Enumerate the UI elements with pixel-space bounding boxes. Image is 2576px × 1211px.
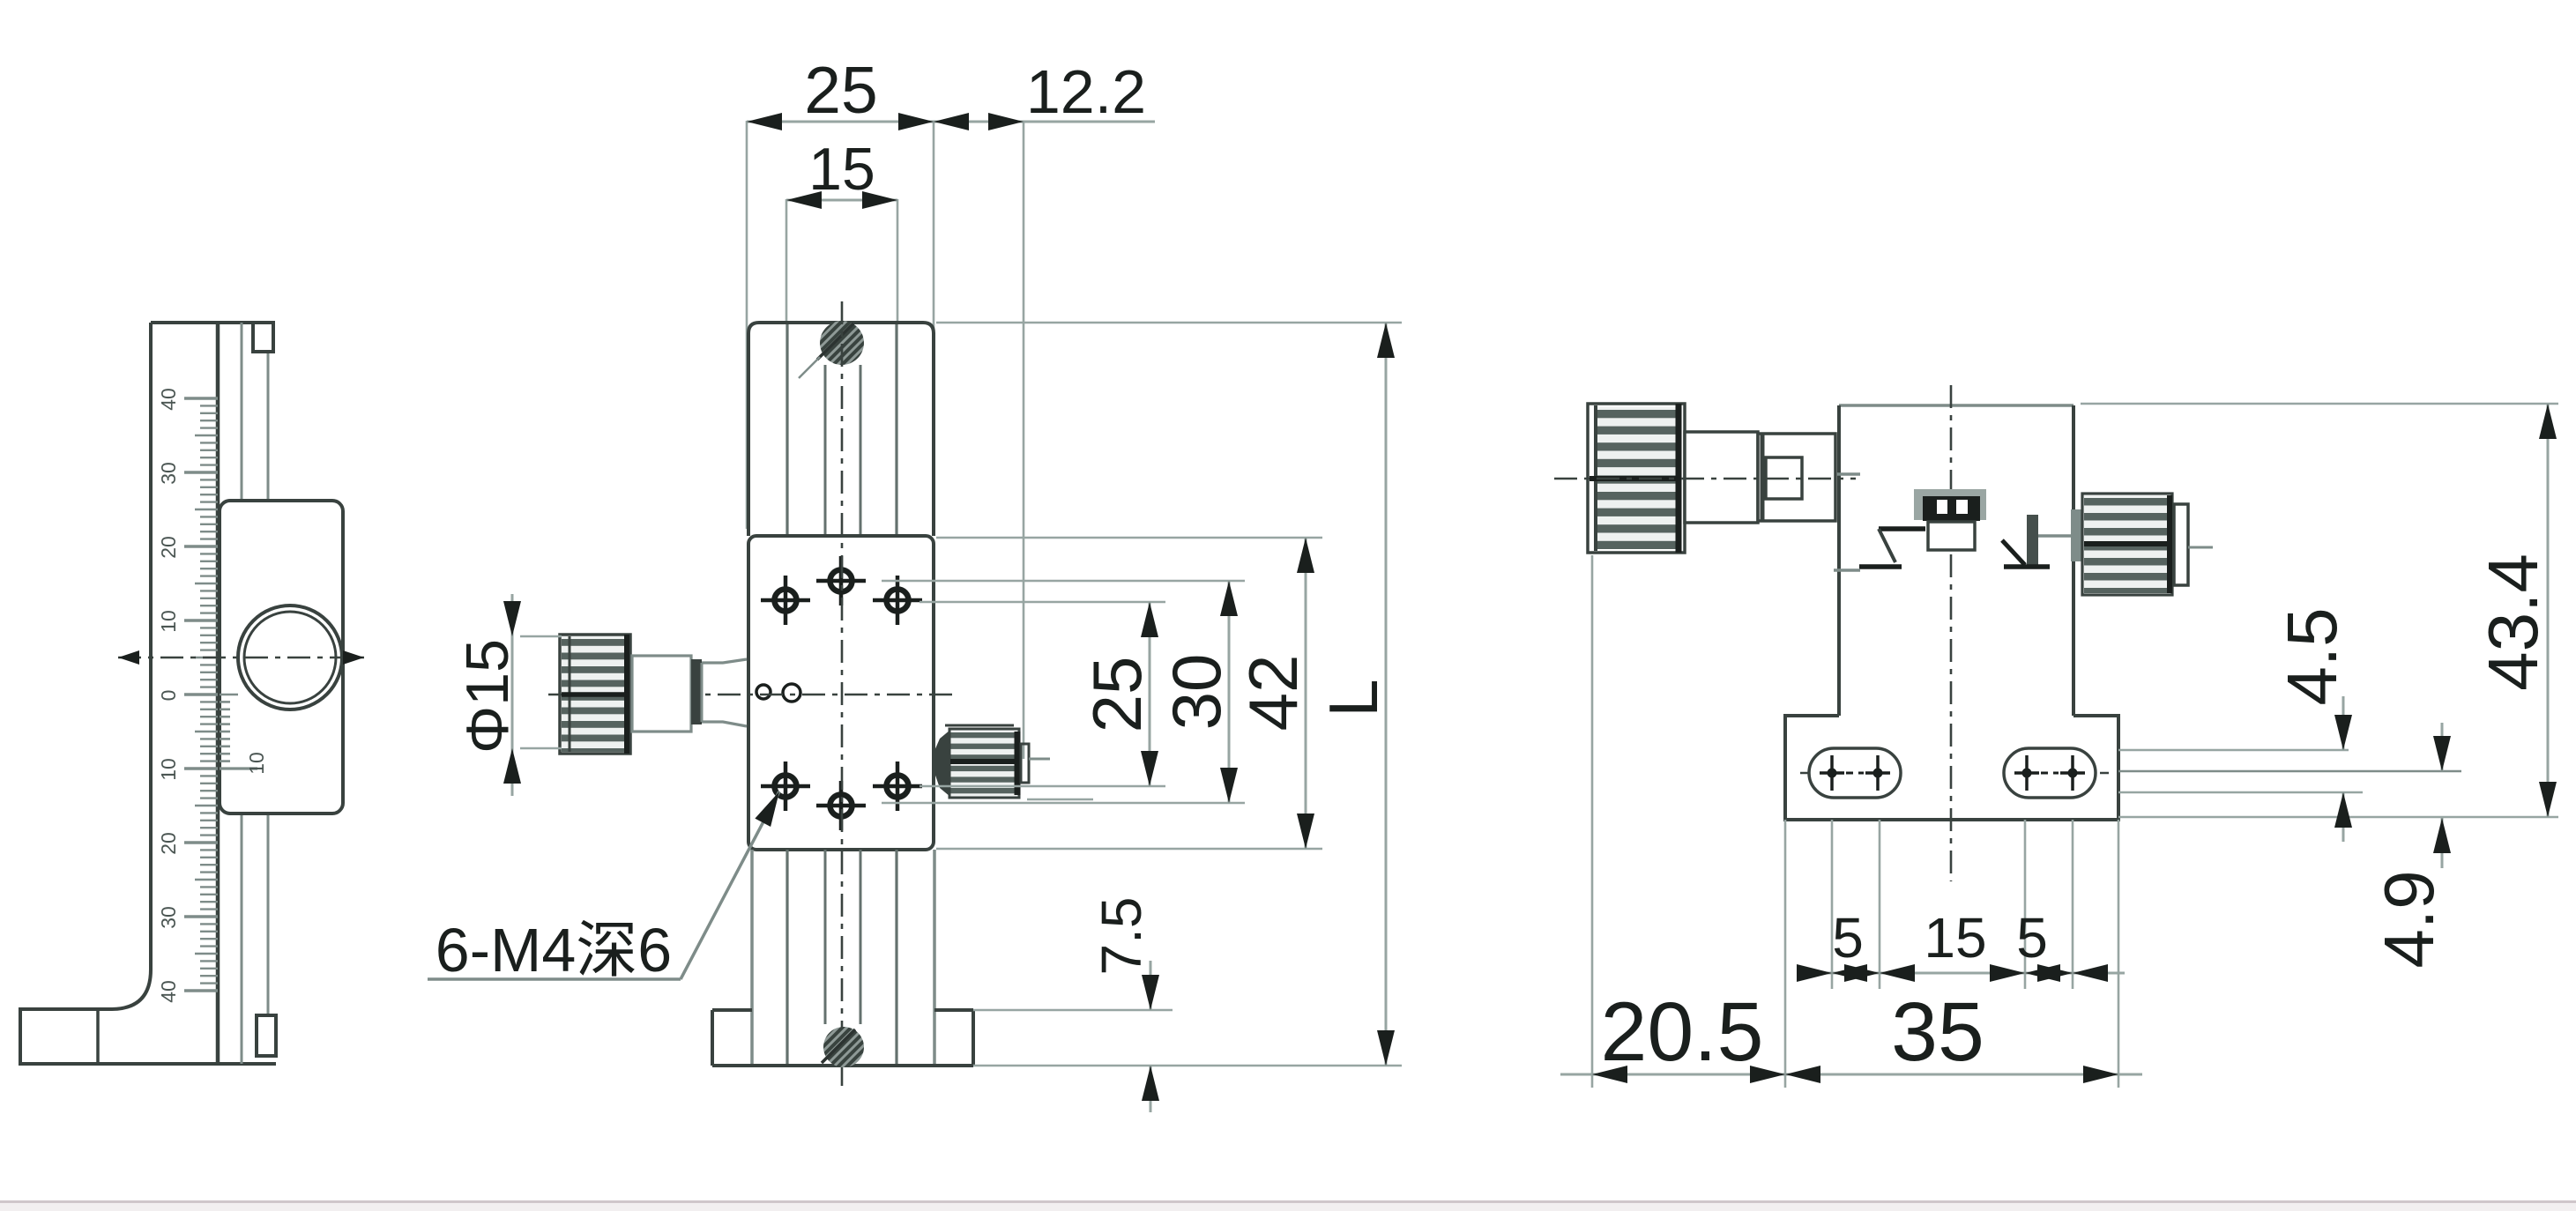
- spindle contact circles: [756, 685, 771, 699]
- left view scale ticks and numbers: [157, 388, 268, 1003]
- svg-text:6-M4深6: 6-M4深6: [436, 916, 672, 984]
- 6x M4 holes: [761, 576, 810, 625]
- svg-text:25: 25: [804, 53, 877, 127]
- left view centerline: [118, 657, 364, 659]
- svg-text:4.9: 4.9: [2370, 870, 2448, 968]
- bottom page rule: [0, 1200, 2576, 1203]
- svg-text:30: 30: [1158, 654, 1235, 731]
- middle view rail top section: [787, 323, 897, 536]
- svg-text:42: 42: [1234, 655, 1312, 732]
- svg-text:30: 30: [157, 906, 180, 929]
- svg-text:4.5: 4.5: [2273, 607, 2351, 705]
- svg-text:15: 15: [1924, 906, 1986, 970]
- middle view centerlines: [841, 301, 844, 1086]
- clamp knob (front view): [934, 725, 1050, 798]
- middle view top block: [748, 323, 934, 536]
- svg-text:20: 20: [157, 832, 180, 855]
- middle view rail bottom + foot: [712, 850, 973, 1066]
- svg-text:20.5: 20.5: [1601, 985, 1764, 1079]
- middle view extension+dimension lines top: [747, 53, 1155, 759]
- svg-text:5: 5: [2016, 906, 2048, 970]
- right view body outline: [1839, 404, 2073, 406]
- svg-text:Φ15: Φ15: [454, 639, 521, 754]
- svg-text:20: 20: [157, 536, 180, 559]
- right view dimensions: [1560, 404, 2558, 1088]
- svg-text:43.4: 43.4: [2474, 553, 2552, 691]
- svg-text:10: 10: [157, 758, 180, 781]
- svg-text:35: 35: [1891, 985, 1984, 1079]
- right view flange: [1785, 716, 2118, 820]
- dim PHI15: [454, 594, 562, 796]
- svg-text:40: 40: [157, 980, 180, 1003]
- svg-text:0: 0: [157, 690, 180, 702]
- clamp nut mechanism: [1834, 474, 2050, 570]
- svg-text:30: 30: [157, 462, 180, 485]
- mounting slots: [1809, 748, 1901, 798]
- right view micrometer thimble: [1588, 404, 1835, 553]
- right view clamp knob: [2038, 494, 2213, 595]
- svg-text:L: L: [1314, 679, 1392, 717]
- leader 6-M4 deep 6: [428, 791, 779, 984]
- bottom screw hole (hatched): [822, 1027, 864, 1067]
- svg-text:5: 5: [1832, 906, 1864, 970]
- micrometer head (left): [560, 635, 747, 754]
- left view: L-bracket base with vertical scale: [20, 323, 276, 1064]
- svg-text:40: 40: [157, 388, 180, 411]
- svg-text:7.5: 7.5: [1090, 897, 1153, 976]
- svg-text:10: 10: [245, 752, 268, 775]
- carriage body 42mm: [748, 536, 934, 850]
- svg-text:12.2: 12.2: [1026, 57, 1146, 126]
- right view centerline (axis): [1554, 478, 1856, 480]
- svg-text:15: 15: [808, 136, 875, 203]
- middle view right dimensions 25 30 42 L 7.5: [882, 323, 1402, 1112]
- right view vertical centerline: [1950, 385, 1953, 881]
- top screw hole (hatched): [799, 321, 864, 378]
- svg-text:10: 10: [157, 610, 180, 633]
- left view slider block with knob circle: [220, 501, 343, 814]
- svg-text:25: 25: [1078, 657, 1156, 733]
